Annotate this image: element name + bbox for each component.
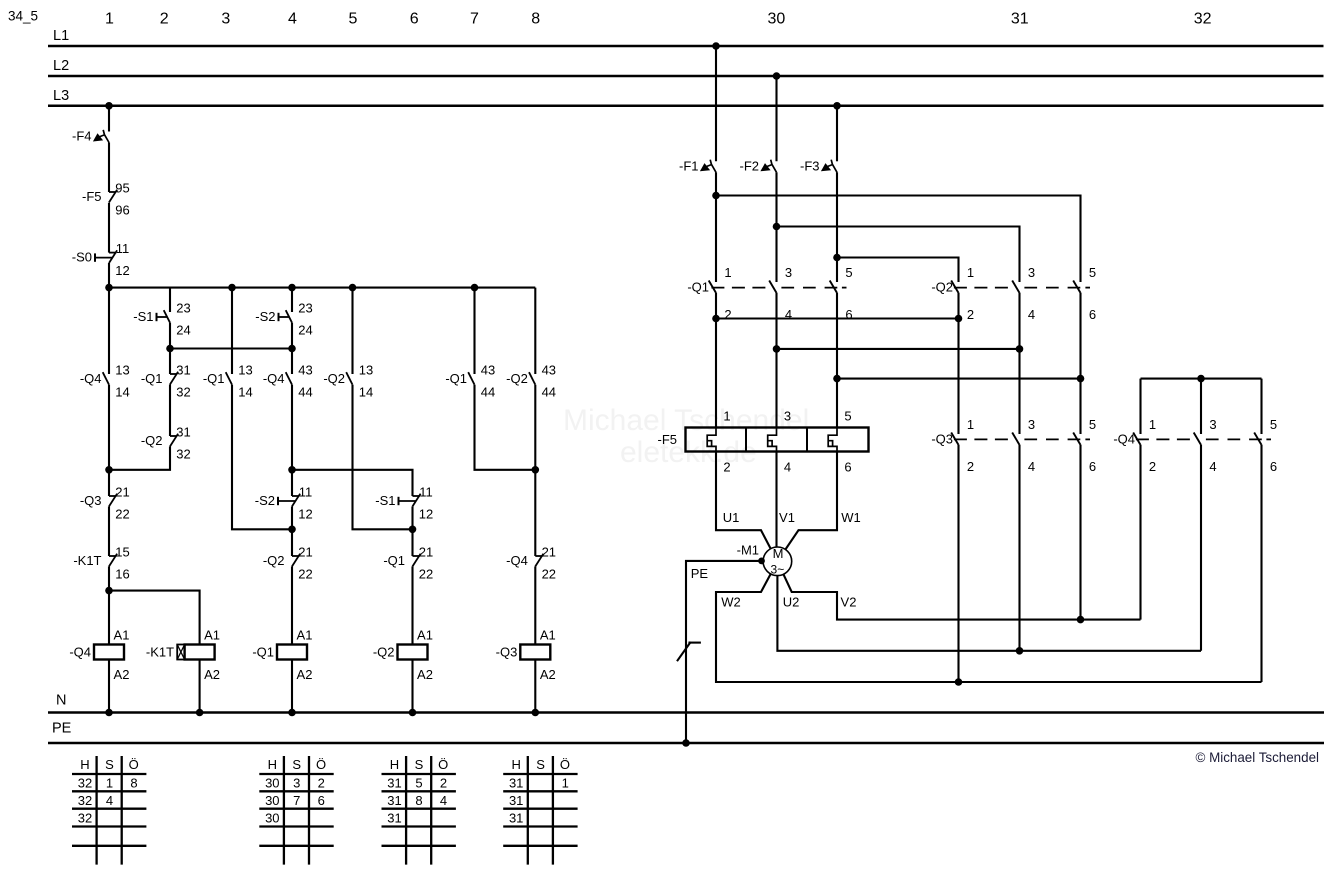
svg-text:-K1T: -K1T <box>73 553 101 568</box>
svg-text:7: 7 <box>470 11 479 28</box>
svg-text:31: 31 <box>387 776 401 791</box>
contactor Q3 main poles <box>931 417 1096 474</box>
svg-text:1: 1 <box>105 11 114 28</box>
junction coil branch <box>105 587 113 595</box>
wire bus to S1 <box>169 288 171 312</box>
svg-text:N: N <box>56 693 66 709</box>
svg-text:-Q2: -Q2 <box>373 645 395 660</box>
svg-text:1: 1 <box>1149 417 1156 432</box>
svg-text:31: 31 <box>176 424 190 439</box>
wire motor to PE conductor <box>686 561 762 743</box>
svg-text:43: 43 <box>542 362 556 377</box>
svg-text:1: 1 <box>724 265 731 280</box>
wire Q4 21 to coil Q3 <box>534 566 536 644</box>
junction U2 to Q2 pole 3 <box>1016 647 1024 655</box>
wire S1 to bus2 <box>169 323 171 349</box>
svg-text:-Q2: -Q2 <box>323 371 345 386</box>
junction bus col3 <box>228 284 236 292</box>
wire node B to S1 11 <box>292 470 413 496</box>
watermark <box>563 404 809 469</box>
svg-text:22: 22 <box>419 566 433 581</box>
svg-text:U1: U1 <box>723 510 740 525</box>
contact -K1T 15/16 <box>73 544 129 581</box>
junction W2 to Q2 pole 1 <box>955 678 963 686</box>
svg-text:1: 1 <box>562 776 569 791</box>
wire coil Q4 to N <box>108 660 110 713</box>
wire motor W2 to Q4 pole 5 <box>716 574 1262 682</box>
contactor Q1 main poles <box>687 265 852 322</box>
svg-text:11: 11 <box>116 241 130 256</box>
contact -S1 23/24 <box>133 300 190 337</box>
wire F4 to F5 <box>108 143 110 193</box>
wire bridge to Q4 pole 1 <box>1139 379 1141 434</box>
rail L2 <box>48 58 1324 76</box>
contact -S2 23/24 <box>255 300 312 337</box>
svg-text:W1: W1 <box>841 510 861 525</box>
junction N col4 <box>409 709 417 717</box>
PE conductor mark <box>677 642 701 661</box>
svg-text:3: 3 <box>1209 417 1216 432</box>
svg-text:16: 16 <box>115 566 129 581</box>
svg-text:30: 30 <box>768 11 786 28</box>
svg-text:2: 2 <box>967 459 974 474</box>
svg-text:A2: A2 <box>297 667 313 682</box>
wire Q1 43 to node E <box>475 385 536 470</box>
wire bus to Q2 43 <box>534 288 536 374</box>
wire Q1 21 to coil Q2 <box>411 566 413 644</box>
svg-text:95: 95 <box>115 180 129 195</box>
svg-text:2: 2 <box>967 307 974 322</box>
svg-text:2: 2 <box>723 460 730 475</box>
svg-text:A2: A2 <box>204 667 220 682</box>
wire Q2 pole1 to Q3 pole1 <box>957 293 959 434</box>
svg-text:1: 1 <box>967 417 974 432</box>
junction bus2 col2 <box>166 345 174 353</box>
svg-text:12: 12 <box>115 263 129 278</box>
svg-text:31: 31 <box>387 793 401 808</box>
coil -Q2 <box>373 628 433 683</box>
svg-text:8: 8 <box>415 793 422 808</box>
svg-text:5: 5 <box>415 776 422 791</box>
svg-text:21: 21 <box>542 544 556 559</box>
contactor Q4 main poles <box>1113 417 1277 474</box>
wire K1T 15 to coil Q4 <box>108 566 110 644</box>
wire Q1 pole1 to Q2 pole1 bottom <box>716 317 959 319</box>
svg-text:22: 22 <box>115 506 129 521</box>
svg-text:L1: L1 <box>53 28 69 44</box>
svg-text:13: 13 <box>238 362 252 377</box>
circuit breaker -F3 <box>800 158 837 173</box>
svg-text:11: 11 <box>419 484 433 499</box>
svg-text:3: 3 <box>1028 417 1035 432</box>
wire bus to S2 23 <box>291 288 293 312</box>
svg-text:23: 23 <box>176 300 190 315</box>
svg-text:32: 32 <box>1194 11 1212 28</box>
wire L1 to F1 <box>715 46 717 161</box>
junction N col5 <box>532 709 540 717</box>
junction feeder 3 <box>833 254 841 262</box>
wire S2 23 to bus2 <box>291 323 293 349</box>
junction link3 left <box>833 375 841 383</box>
svg-text:1: 1 <box>723 409 730 424</box>
svg-text:34_5: 34_5 <box>8 9 38 24</box>
wire L3 to F4 <box>108 106 110 132</box>
wire Q1 pole3 to Q2 pole3 bottom <box>777 348 1020 350</box>
svg-text:3: 3 <box>293 776 300 791</box>
junction node A <box>105 466 113 474</box>
svg-text:-Q4: -Q4 <box>506 553 528 568</box>
svg-text:4: 4 <box>785 307 792 322</box>
rail PE <box>48 721 1324 743</box>
svg-text:2: 2 <box>440 776 447 791</box>
svg-text:4: 4 <box>784 460 791 475</box>
wire coil Q3 to N <box>534 660 536 713</box>
cross reference table 1 <box>72 756 146 865</box>
svg-text:32: 32 <box>176 384 190 399</box>
svg-text:3: 3 <box>221 11 230 28</box>
grid column numbers <box>105 11 1212 28</box>
junction bus2 col4 <box>288 345 296 353</box>
svg-text:6: 6 <box>844 460 851 475</box>
feeder L1 to Q2 pole 5 <box>716 196 1081 283</box>
wire Q3 21 to K1T 15 <box>108 506 110 556</box>
cross reference table 3 <box>382 756 456 865</box>
junction PE rail <box>682 739 690 747</box>
coil -Q4 <box>69 628 129 683</box>
svg-text:24: 24 <box>176 322 190 337</box>
svg-text:-Q1: -Q1 <box>252 645 274 660</box>
svg-text:4: 4 <box>440 793 447 808</box>
svg-text:44: 44 <box>542 384 556 399</box>
svg-text:32: 32 <box>78 793 92 808</box>
contact -Q4 21/22 <box>506 544 556 581</box>
contact -S1 11/12 <box>375 484 433 521</box>
svg-text:4: 4 <box>1028 307 1035 322</box>
rail N <box>48 693 1324 713</box>
svg-text:31: 31 <box>1011 11 1029 28</box>
contact -S0 11/12 <box>72 241 130 278</box>
svg-text:-F4: -F4 <box>72 129 92 144</box>
circuit breaker -F4 <box>72 129 109 144</box>
svg-text:5: 5 <box>845 265 852 280</box>
svg-text:-Q2: -Q2 <box>141 433 163 448</box>
wire motor V2 to Q4 pole 1 <box>783 574 1140 619</box>
wire Q3 pole1 down <box>957 445 959 682</box>
svg-text:S: S <box>292 757 301 772</box>
wire bus to Q2 13 <box>351 288 353 374</box>
svg-text:Ö: Ö <box>560 757 570 772</box>
junction node B <box>288 466 296 474</box>
motor M1 <box>737 543 792 577</box>
contact -Q4 43/44 <box>263 362 313 399</box>
svg-text:32: 32 <box>78 810 92 825</box>
node L2 tap <box>773 72 781 80</box>
motor terminal labels bottom <box>721 595 856 610</box>
svg-text:-S1: -S1 <box>375 493 395 508</box>
svg-text:30: 30 <box>265 776 279 791</box>
junction N col2 <box>196 709 204 717</box>
svg-text:43: 43 <box>481 362 495 377</box>
wire F5 to motor V1 <box>775 452 777 548</box>
svg-text:6: 6 <box>1270 459 1277 474</box>
node L3 tap column 1 <box>105 102 113 110</box>
svg-text:14: 14 <box>359 384 373 399</box>
svg-text:L2: L2 <box>53 58 69 74</box>
svg-text:6: 6 <box>318 793 325 808</box>
svg-text:8: 8 <box>531 11 540 28</box>
svg-text:V2: V2 <box>841 595 857 610</box>
wire Q3 pole3 down <box>1018 445 1020 651</box>
svg-text:21: 21 <box>115 484 129 499</box>
junction link1 right <box>955 315 963 323</box>
svg-text:4: 4 <box>1028 459 1035 474</box>
svg-text:7: 7 <box>293 793 300 808</box>
svg-text:H: H <box>268 757 277 772</box>
svg-text:44: 44 <box>481 384 495 399</box>
svg-text:S: S <box>415 757 424 772</box>
svg-text:3~: 3~ <box>771 563 785 577</box>
svg-text:-Q1: -Q1 <box>203 371 225 386</box>
svg-text:V1: V1 <box>779 510 795 525</box>
coil -Q1 <box>252 628 312 683</box>
star bridge of Q4 <box>1141 378 1262 380</box>
node L1 tap <box>712 42 720 50</box>
wire Q1 pole5 to Q2 pole5 bottom <box>837 378 1081 380</box>
svg-text:1: 1 <box>967 265 974 280</box>
junction node E <box>532 466 540 474</box>
svg-text:-Q3: -Q3 <box>496 645 518 660</box>
wire S0 to control bus <box>108 263 110 288</box>
wire Q2 pole5 to Q3 pole5 <box>1079 293 1081 434</box>
svg-text:22: 22 <box>542 566 556 581</box>
svg-text:5: 5 <box>1089 265 1096 280</box>
svg-text:H: H <box>390 757 399 772</box>
svg-text:4: 4 <box>288 11 297 28</box>
svg-text:-K1T: -K1T <box>146 645 174 660</box>
svg-text:H: H <box>512 757 521 772</box>
svg-text:-Q4: -Q4 <box>263 371 285 386</box>
svg-text:-M1: -M1 <box>737 543 759 558</box>
wire F3 to Q1 pole 5 <box>836 172 838 282</box>
svg-text:-F2: -F2 <box>740 158 760 173</box>
svg-text:24: 24 <box>298 322 312 337</box>
feeder L3 to Q2 pole 1 <box>837 258 959 283</box>
svg-text:© Michael Tschendel: © Michael Tschendel <box>1195 750 1319 765</box>
svg-text:A1: A1 <box>204 628 220 643</box>
wire F5 to motor W1 <box>785 452 837 550</box>
svg-text:-Q2: -Q2 <box>263 553 285 568</box>
svg-text:-Q1: -Q1 <box>445 371 467 386</box>
junction node D <box>409 526 417 534</box>
svg-text:31: 31 <box>387 810 401 825</box>
svg-text:-S0: -S0 <box>72 250 92 265</box>
svg-text:3: 3 <box>784 409 791 424</box>
svg-text:-Q1: -Q1 <box>141 371 163 386</box>
svg-text:8: 8 <box>130 776 137 791</box>
svg-text:2: 2 <box>160 11 169 28</box>
seal-in bus <box>170 347 292 349</box>
svg-text:A1: A1 <box>114 628 130 643</box>
contact -Q1 31/32 <box>141 362 191 399</box>
svg-text:4: 4 <box>1209 459 1216 474</box>
contact -Q1 13/14 <box>203 362 253 399</box>
wire F1 to Q1 pole 1 <box>715 172 717 282</box>
svg-text:Ö: Ö <box>129 757 139 772</box>
wire L2 to F2 <box>775 76 777 161</box>
svg-text:-S2: -S2 <box>255 309 275 324</box>
svg-text:5: 5 <box>349 11 358 28</box>
junction link3 right <box>1077 375 1085 383</box>
junction star bridge <box>1197 375 1205 383</box>
svg-text:-Q2: -Q2 <box>506 371 528 386</box>
svg-text:-Q1: -Q1 <box>687 280 709 295</box>
cross reference table 4 <box>503 756 577 865</box>
svg-text:11: 11 <box>299 484 313 499</box>
svg-text:6: 6 <box>1089 459 1096 474</box>
junction bus col4 <box>288 284 296 292</box>
contact -Q3 21/22 <box>80 484 130 521</box>
svg-text:-F3: -F3 <box>800 158 820 173</box>
wire L3 to F3 <box>836 106 838 162</box>
junction link2 left <box>773 345 781 353</box>
wire Q4 pole3 down <box>1200 445 1202 651</box>
svg-text:31: 31 <box>509 793 523 808</box>
wire bus to Q1 43 <box>473 288 475 374</box>
wire bus to Q1 13 <box>231 288 233 374</box>
contact -Q2 43/44 <box>506 362 556 399</box>
svg-text:2: 2 <box>1149 459 1156 474</box>
wire Q4 pole1 down <box>1139 445 1141 620</box>
contact -S2 11/12 <box>255 484 313 521</box>
svg-text:14: 14 <box>238 384 252 399</box>
svg-text:PE: PE <box>52 721 72 737</box>
rail L3 <box>48 88 1324 106</box>
svg-text:6: 6 <box>1089 307 1096 322</box>
svg-text:3: 3 <box>785 265 792 280</box>
control bus <box>109 287 535 289</box>
svg-text:3: 3 <box>1028 265 1035 280</box>
svg-text:6: 6 <box>410 11 419 28</box>
junction feeder 2 <box>773 223 781 231</box>
wire F2 to Q1 pole 3 <box>775 172 777 282</box>
svg-text:U2: U2 <box>783 595 800 610</box>
junction V2 to Q2 pole 5 <box>1077 616 1085 624</box>
svg-text:A1: A1 <box>540 628 556 643</box>
junction node C <box>288 526 296 534</box>
wire Q4 13 to Q3 21 <box>108 385 110 496</box>
svg-text:12: 12 <box>419 506 433 521</box>
svg-text:-Q3: -Q3 <box>80 493 102 508</box>
svg-text:1: 1 <box>106 776 113 791</box>
svg-text:-F5: -F5 <box>658 432 678 447</box>
wire motor U2 to Q4 pole 3 <box>777 576 1201 651</box>
junction feeder 1 <box>712 192 720 200</box>
svg-text:32: 32 <box>78 776 92 791</box>
svg-text:13: 13 <box>359 362 373 377</box>
junction N col1 <box>105 709 113 717</box>
svg-text:5: 5 <box>1089 417 1096 432</box>
svg-text:A1: A1 <box>417 628 433 643</box>
wire bridge to Q4 pole 5 <box>1260 379 1262 434</box>
wire bridge to Q4 pole 3 <box>1200 379 1202 434</box>
svg-text:Ö: Ö <box>316 757 326 772</box>
svg-text:M: M <box>773 546 784 561</box>
wire coil K1T to N <box>199 660 201 713</box>
wire Q1 outputs to F5 <box>715 293 717 428</box>
wire Q4 pole5 down <box>1260 445 1262 682</box>
svg-text:A1: A1 <box>297 628 313 643</box>
svg-text:30: 30 <box>265 810 279 825</box>
junction N col3 <box>288 709 296 717</box>
contact -Q1 43/44 <box>445 362 495 399</box>
wire Q3 pole5 down <box>1079 445 1081 620</box>
svg-text:12: 12 <box>298 506 312 521</box>
contact -Q2 31/32 <box>141 424 191 461</box>
wire bus2 to Q4 43 <box>291 349 293 375</box>
svg-text:13: 13 <box>115 362 129 377</box>
svg-text:32: 32 <box>176 446 190 461</box>
contact -Q1 21/22 <box>383 544 433 581</box>
svg-text:23: 23 <box>298 300 312 315</box>
junction link1 left <box>712 315 720 323</box>
feeder L2 to Q2 pole 3 <box>777 227 1020 283</box>
thermal overload relay F5 <box>658 409 869 475</box>
svg-text:H: H <box>80 757 89 772</box>
svg-text:-Q4: -Q4 <box>1113 432 1135 447</box>
svg-text:A2: A2 <box>417 667 433 682</box>
wire branch to coil K1T <box>109 591 200 645</box>
contact -Q4 13/14 <box>80 362 130 399</box>
wire F5 to motor U1 <box>716 452 771 549</box>
svg-text:96: 96 <box>115 202 129 217</box>
svg-text:31: 31 <box>509 776 523 791</box>
svg-text:A2: A2 <box>114 667 130 682</box>
svg-text:S: S <box>105 757 114 772</box>
svg-text:2: 2 <box>724 307 731 322</box>
svg-text:31: 31 <box>176 362 190 377</box>
junction link2 right <box>1016 345 1024 353</box>
svg-text:L3: L3 <box>53 88 69 104</box>
svg-text:-F5: -F5 <box>82 189 102 204</box>
svg-text:4: 4 <box>106 793 113 808</box>
wire bus to Q4 13 <box>108 288 110 374</box>
svg-text:S: S <box>536 757 545 772</box>
wire Q2 21 to coil Q1 <box>291 566 293 644</box>
wire Q2 31 to node A <box>109 446 170 469</box>
svg-text:-S1: -S1 <box>133 309 153 324</box>
wire Q2 43 to Q4 21 <box>534 385 536 556</box>
wire Q1 13 to node C <box>232 385 292 530</box>
svg-text:6: 6 <box>845 307 852 322</box>
node L3 tap <box>833 102 841 110</box>
wire coil Q1 to N <box>291 660 293 713</box>
svg-text:-S2: -S2 <box>255 493 275 508</box>
svg-text:43: 43 <box>298 362 312 377</box>
svg-text:-Q2: -Q2 <box>931 280 953 295</box>
svg-text:22: 22 <box>298 566 312 581</box>
svg-text:PE: PE <box>691 566 709 581</box>
svg-text:A2: A2 <box>540 667 556 682</box>
coil -K1T <box>146 628 220 683</box>
contact -Q2 21/22 <box>263 544 313 581</box>
svg-text:5: 5 <box>844 409 851 424</box>
svg-text:5: 5 <box>1270 417 1277 432</box>
svg-text:-Q1: -Q1 <box>383 553 405 568</box>
svg-text:-Q4: -Q4 <box>69 645 91 660</box>
wire coil Q2 to N <box>411 660 413 713</box>
svg-text:21: 21 <box>419 544 433 559</box>
rail L1 <box>48 28 1324 46</box>
